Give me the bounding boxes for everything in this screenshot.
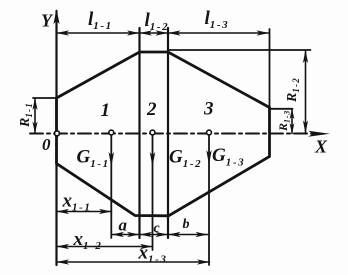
x1-1 dimension bbox=[57, 211, 112, 213]
a c b dimension line bbox=[112, 234, 209, 236]
svg-text:X: X bbox=[314, 137, 328, 157]
R1-3 dimension bbox=[291, 109, 293, 134]
svg-text:1: 1 bbox=[101, 100, 111, 121]
force node G1-3 bbox=[207, 130, 212, 135]
R1-1 dimension bbox=[34, 98, 36, 134]
svg-text:2: 2 bbox=[146, 99, 157, 120]
section divider x=139.5 bbox=[138, 28, 140, 238]
extension line right vertical bbox=[269, 29, 271, 108]
Y axis bbox=[55, 11, 57, 265]
R1-2 dimension bbox=[305, 50, 307, 134]
svg-text:3: 3 bbox=[203, 98, 214, 119]
extension line R1-3 horizontal bbox=[270, 108, 293, 110]
svg-text:c: c bbox=[154, 221, 161, 236]
X axis bbox=[30, 133, 316, 135]
svg-text:a: a bbox=[119, 215, 128, 234]
force node G1-2 bbox=[150, 130, 155, 135]
svg-text:0: 0 bbox=[42, 135, 51, 154]
x1-2 dimension bbox=[57, 246, 153, 248]
extension line R1-1 horizontal bbox=[33, 97, 57, 99]
section divider x=168 bbox=[167, 28, 169, 238]
shaft outline bbox=[57, 52, 270, 216]
force node G1-1 bbox=[109, 130, 114, 135]
extension line R1-2 horizontal bbox=[168, 49, 311, 51]
top dimension line bbox=[57, 32, 270, 34]
svg-text:b: b bbox=[183, 217, 190, 232]
x1-3 dimension bbox=[57, 261, 210, 263]
origin node bbox=[55, 131, 60, 136]
